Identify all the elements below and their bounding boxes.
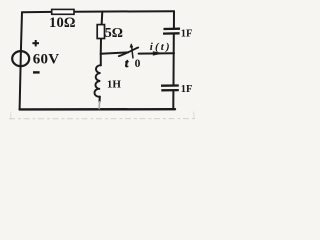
wire inductor bottom lead	[99, 97, 101, 102]
wire top-right segment	[74, 10, 174, 13]
svg-text:1H: 1H	[107, 79, 122, 91]
wire bottom	[20, 108, 175, 111]
capacitor C1 top plate	[164, 28, 181, 31]
ghost show-through box right edge	[193, 112, 195, 119]
inductor L1 coil	[94, 65, 100, 97]
wire current branch to right node	[139, 52, 174, 54]
voltage source V1 circle	[12, 51, 29, 66]
ghost show-through box bottom line	[9, 118, 195, 120]
resistor R2 5ohm box	[97, 25, 104, 39]
svg-text:5Ω: 5Ω	[105, 26, 123, 41]
switch SW1 blade	[119, 48, 138, 57]
wire inductor bottom lead faint part	[98, 102, 100, 109]
wire right middle (C1 to C2)	[173, 35, 175, 85]
capacitor C2 top plate	[161, 84, 179, 86]
wire right bottom (C2 to bottom)	[172, 91, 174, 109]
wire middle branch top	[101, 12, 104, 25]
wire top-left segment	[22, 11, 52, 13]
svg-text:1F: 1F	[181, 28, 193, 39]
svg-text:60V: 60V	[33, 51, 59, 67]
current arrow i(t) head	[153, 51, 164, 55]
wire right top (to capacitor C1)	[173, 11, 175, 28]
svg-text:1F: 1F	[181, 84, 193, 95]
capacitor C1 bottom plate	[163, 32, 180, 35]
wire switch feed	[101, 52, 128, 53]
svg-text:i(t): i(t)	[150, 41, 172, 53]
voltage source plus sign	[32, 40, 39, 46]
svg-text:0: 0	[135, 58, 141, 70]
svg-text:10Ω: 10Ω	[49, 15, 76, 31]
switch SW1 t=0 pointer arrow	[130, 44, 133, 59]
capacitor C2 bottom plate	[161, 89, 179, 92]
wire left side	[20, 12, 22, 109]
wire middle branch (5ohm to switch node to inductor)	[100, 38, 102, 65]
resistor R1 10ohm box	[52, 9, 74, 14]
voltage source minus sign	[33, 71, 40, 73]
ghost show-through box left edge	[10, 112, 12, 119]
